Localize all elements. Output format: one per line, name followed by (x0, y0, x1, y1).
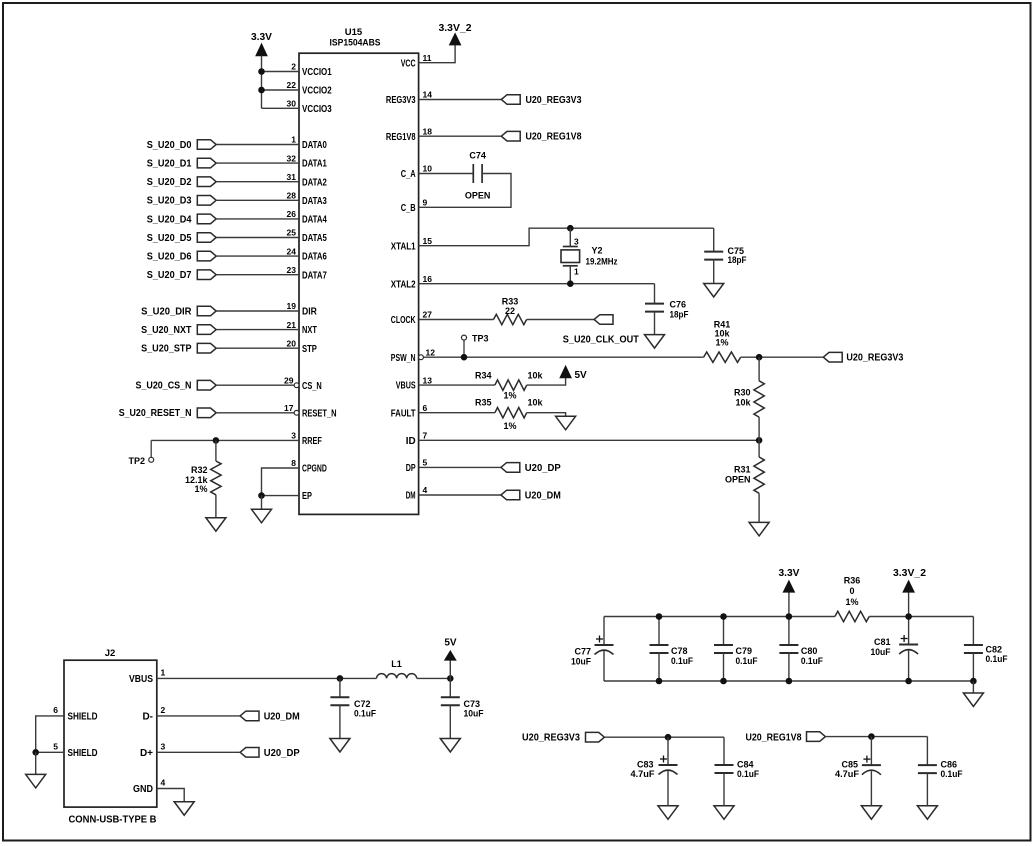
wire DP pin 5 to flag (419, 466, 501, 468)
svg-text:32: 32 (287, 153, 297, 163)
svg-text:C_B: C_B (401, 203, 416, 214)
svg-text:12: 12 (426, 347, 436, 357)
svg-text:STP: STP (302, 344, 317, 355)
svg-text:C76: C76 (670, 300, 687, 310)
resistor R33 22 (494, 297, 527, 325)
svg-text:4.7uF: 4.7uF (835, 769, 860, 779)
svg-text:R33: R33 (502, 297, 519, 307)
svg-text:26: 26 (287, 209, 297, 219)
junction C73 5V (447, 675, 454, 682)
svg-text:DATA1: DATA1 (302, 159, 327, 170)
svg-text:19: 19 (287, 301, 297, 311)
wire bottom bus to ground (972, 681, 974, 693)
resistor R41 10k 1% (704, 320, 741, 363)
wire SHIELD to ground (35, 752, 37, 774)
wire SHIELD pin 5 (36, 751, 64, 753)
svg-text:0: 0 (849, 586, 854, 596)
svg-text:3.3V_2: 3.3V_2 (893, 568, 926, 579)
node S_U20_NXT flag (141, 325, 216, 336)
wire REG3V3 bank (604, 736, 724, 738)
svg-text:20: 20 (287, 338, 297, 348)
wire EP to ground (261, 496, 263, 510)
svg-text:7: 7 (423, 431, 428, 441)
capacitor C76 18pF (645, 284, 689, 335)
capacitor C83 4.7uF (631, 737, 678, 806)
power 3.3V (bank) (779, 568, 800, 617)
wire RREF pin 3 (151, 439, 299, 441)
wire ground bottom bus (604, 680, 973, 682)
svg-text:5V: 5V (575, 370, 588, 381)
svg-text:C_A: C_A (401, 169, 416, 180)
svg-text:10k: 10k (528, 371, 544, 381)
junction ID node (756, 437, 763, 444)
wire S_U20_D1 to IC (216, 162, 299, 164)
svg-text:D+: D+ (140, 748, 153, 759)
svg-text:DP: DP (406, 463, 416, 474)
svg-text:1%: 1% (503, 390, 516, 400)
svg-text:U20_REG1V8: U20_REG1V8 (746, 733, 802, 744)
svg-text:C83: C83 (637, 759, 654, 769)
svg-text:REG3V3: REG3V3 (386, 95, 416, 106)
junction crystal bottom (567, 280, 574, 287)
svg-text:22: 22 (505, 306, 515, 316)
svg-text:1: 1 (291, 135, 296, 145)
ground below R35 (556, 416, 576, 430)
power 5V (VBUS pullup) (560, 366, 587, 381)
node U20_REG3V3 flag (bank) (522, 732, 604, 743)
svg-text:S_U20_D6: S_U20_D6 (147, 252, 192, 263)
svg-text:D-: D- (142, 712, 153, 723)
svg-text:OPEN: OPEN (465, 191, 491, 201)
svg-text:17: 17 (284, 403, 294, 413)
wire S_U20_D2 to IC (216, 181, 299, 183)
svg-text:0.1uF: 0.1uF (354, 709, 376, 719)
svg-text:C77: C77 (574, 647, 591, 657)
junction SHIELD (32, 749, 39, 756)
svg-text:VBUS: VBUS (396, 381, 416, 392)
resistor R36 0 1% (835, 576, 869, 622)
wire S_U20_D5 to IC (216, 237, 299, 239)
capacitor C77 10uF (571, 617, 614, 682)
svg-text:5V: 5V (444, 638, 457, 649)
svg-text:3: 3 (574, 236, 579, 246)
svg-text:21: 21 (287, 320, 297, 330)
svg-text:DATA0: DATA0 (302, 140, 327, 151)
junction C80 bottom (786, 678, 793, 685)
ground below C84 (714, 806, 734, 820)
ground below EP (252, 509, 272, 523)
node S_U20_D4 flag (147, 214, 217, 225)
pin bubble RESET_N pin 17 (294, 410, 299, 415)
svg-text:VCCIO3: VCCIO3 (302, 104, 332, 115)
node U20_REG1V8 flag (top) (501, 131, 582, 142)
wire R41 to REG3V3 flag (741, 356, 824, 358)
svg-text:4: 4 (423, 485, 428, 495)
svg-text:J2: J2 (105, 648, 116, 659)
svg-text:11: 11 (423, 53, 432, 63)
svg-text:S_U20_D2: S_U20_D2 (147, 177, 192, 188)
test point TP3 (462, 333, 489, 357)
svg-text:S_U20_STP: S_U20_STP (141, 344, 192, 355)
svg-text:ID: ID (406, 436, 416, 447)
svg-text:TP3: TP3 (472, 333, 489, 343)
svg-text:DATA4: DATA4 (302, 215, 327, 226)
ground below C75 (704, 284, 724, 298)
wire VCCIO2 (262, 89, 300, 91)
junction TP3 on PSW_N wire (461, 354, 468, 361)
node U20_REG3V3 flag (top) (501, 95, 582, 106)
wire S_U20_D4 to IC (216, 218, 299, 220)
ground below J2 GND (174, 802, 194, 816)
node S_U20_D0 flag (147, 140, 217, 151)
capacitor C86 0.1uF (918, 737, 963, 806)
wire S_U20_DIR to IC (216, 310, 299, 312)
svg-text:CPGND: CPGND (302, 464, 327, 475)
capacitor C73 10uF (441, 678, 484, 738)
wire VCCIO3 (262, 107, 300, 109)
resistor R35 10k 1% (475, 397, 544, 431)
wire R35 to ground (527, 413, 566, 417)
ground below C86 (917, 806, 937, 820)
node S_U20_STP flag (141, 343, 216, 354)
svg-text:0.1uF: 0.1uF (941, 769, 963, 779)
svg-text:10: 10 (423, 164, 433, 174)
svg-text:1%: 1% (715, 338, 728, 348)
junction RREF R32 (213, 437, 220, 444)
svg-text:S_U20_D4: S_U20_D4 (147, 214, 192, 225)
svg-text:R36: R36 (844, 576, 861, 586)
inductor L1 (377, 659, 417, 678)
capacitor C74 (465, 150, 491, 200)
test point TP2 (128, 440, 153, 466)
svg-text:S_U20_DIR: S_U20_DIR (141, 306, 192, 317)
svg-text:FAULT: FAULT (391, 408, 416, 419)
svg-text:C81: C81 (874, 637, 891, 647)
wire S_U20_D3 to IC (216, 199, 299, 201)
svg-text:0.1uF: 0.1uF (671, 656, 693, 666)
capacitor C85 4.7uF (835, 737, 881, 806)
svg-text:CS_N: CS_N (302, 381, 322, 392)
svg-text:18pF: 18pF (728, 255, 747, 265)
ground below bank (963, 693, 983, 707)
svg-text:S_U20_CLK_OUT: S_U20_CLK_OUT (563, 334, 639, 345)
svg-text:0.1uF: 0.1uF (737, 769, 759, 779)
svg-text:3.3V: 3.3V (251, 32, 272, 43)
wire R34 to 5V (527, 378, 566, 386)
node S_U20_D7 flag (147, 270, 217, 281)
svg-text:U20_DP: U20_DP (525, 463, 561, 474)
node S_U20_CLK_OUT flag (563, 315, 639, 346)
wire REG1V8 pin 18 (419, 135, 502, 137)
svg-text:14: 14 (423, 90, 433, 100)
svg-text:Y2: Y2 (592, 246, 603, 256)
svg-text:U20_DM: U20_DM (264, 711, 300, 722)
svg-text:DATA5: DATA5 (302, 233, 327, 244)
svg-text:25: 25 (287, 228, 297, 238)
wire S_U20_RESET_N to IC (216, 412, 294, 414)
svg-text:OPEN: OPEN (725, 475, 751, 485)
node U20_DP flag (IC) (501, 463, 561, 474)
capacitor C81 10uF (871, 617, 919, 682)
node S_U20_D6 flag (147, 251, 217, 262)
svg-text:S_U20_D3: S_U20_D3 (147, 196, 192, 207)
svg-text:C78: C78 (671, 646, 688, 656)
svg-text:U20_REG3V3: U20_REG3V3 (526, 95, 582, 106)
svg-text:XTAL2: XTAL2 (391, 279, 416, 290)
svg-text:ISP1504ABS: ISP1504ABS (330, 38, 381, 49)
resistor R30 10k (734, 357, 764, 440)
svg-text:16: 16 (423, 274, 433, 284)
wire XTAL1 pin 15 to crystal and C75 (419, 228, 714, 246)
node S_U20_D5 flag (147, 233, 217, 244)
svg-text:C82: C82 (986, 644, 1003, 654)
svg-text:18: 18 (423, 126, 433, 136)
wire L1 to C73 5V (417, 677, 451, 679)
svg-text:C79: C79 (736, 646, 753, 656)
wire ID pin 7 to R30 R31 node (419, 439, 759, 441)
svg-text:DIR: DIR (302, 307, 318, 318)
wire D- pin 2 to U20_DM flag (157, 715, 240, 717)
svg-text:0.1uF: 0.1uF (986, 654, 1008, 664)
svg-text:10k: 10k (528, 398, 544, 408)
node S_U20_DIR flag (141, 306, 216, 317)
svg-text:15: 15 (423, 236, 433, 246)
svg-text:TP2: TP2 (128, 456, 145, 466)
svg-text:U20_REG3V3: U20_REG3V3 (522, 733, 580, 744)
ground below SHIELD (26, 774, 46, 788)
svg-text:S_U20_CS_N: S_U20_CS_N (136, 381, 192, 392)
capacitor C72 0.1uF (330, 678, 376, 738)
wire VCC pin 11 (419, 45, 456, 63)
svg-text:4: 4 (161, 778, 166, 788)
svg-text:S_U20_RESET_N: S_U20_RESET_N (119, 408, 192, 419)
svg-text:24: 24 (287, 246, 297, 256)
capacitor C84 0.1uF (715, 737, 760, 806)
wire S_U20_CS_N to IC (216, 384, 294, 386)
ground below C76 (645, 335, 665, 349)
resistor R31 OPEN (725, 440, 764, 522)
wire S_U20_D7 to IC (216, 274, 299, 276)
svg-text:10uF: 10uF (571, 656, 591, 666)
svg-text:DATA6: DATA6 (302, 252, 327, 263)
svg-text:S_U20_D0: S_U20_D0 (147, 140, 192, 151)
svg-text:19.2MHz: 19.2MHz (586, 257, 618, 267)
svg-text:C85: C85 (841, 759, 858, 769)
wire PSW_N pin 12 to R41 (423, 356, 703, 358)
wire S_U20_D0 to IC (216, 144, 299, 146)
svg-text:1: 1 (574, 266, 579, 276)
svg-text:VCCIO2: VCCIO2 (302, 86, 332, 97)
svg-text:L1: L1 (391, 659, 402, 669)
ground below R31 (749, 522, 769, 536)
svg-text:SHIELD: SHIELD (68, 748, 98, 759)
svg-text:C80: C80 (801, 646, 818, 656)
node S_U20_D1 flag (147, 158, 217, 169)
wire 3.3V_2 top bus (869, 616, 973, 618)
svg-text:13: 13 (423, 375, 433, 385)
svg-text:VCC: VCC (401, 58, 416, 69)
wire REG1V8 bank (825, 736, 927, 738)
resistor R34 10k 1% (475, 371, 544, 401)
svg-text:1%: 1% (194, 484, 207, 494)
svg-text:6: 6 (423, 403, 428, 413)
wire GND pin 4 (157, 789, 184, 802)
svg-text:XTAL1: XTAL1 (391, 241, 416, 252)
junction crystal top (567, 225, 574, 232)
pin bubble CS_N pin 29 (294, 383, 299, 388)
svg-text:S_U20_NXT: S_U20_NXT (141, 325, 191, 336)
junction C81 bottom (905, 678, 912, 685)
node U20_DM flag (J2) (240, 711, 300, 722)
wire C74 to C_B pin 9 loop (419, 174, 511, 208)
capacitor C75 18pF (704, 228, 747, 283)
capacitor C82 0.1uF (964, 617, 1008, 682)
ground below C72 (330, 739, 350, 753)
wire C_A pin 10 to C74 (419, 173, 474, 175)
node U20_REG1V8 flag (bank) (746, 732, 826, 744)
svg-text:VBUS: VBUS (129, 674, 153, 685)
wire R33 to clock out flag (527, 319, 595, 321)
capacitor C79 0.1uF (714, 617, 758, 682)
svg-text:22: 22 (287, 80, 297, 90)
svg-text:R32: R32 (191, 465, 208, 475)
junction C79 top (720, 613, 727, 620)
wire C73 riser to 5V (449, 660, 451, 678)
svg-text:29: 29 (284, 375, 294, 385)
connector J2 CONN-USB-TYPE B (53, 648, 165, 826)
wire VBUS pin 13 to R34 (419, 384, 495, 386)
svg-text:VCCIO1: VCCIO1 (302, 67, 332, 78)
IC U15 ISP1504ABS (284, 27, 435, 514)
svg-text:1%: 1% (503, 421, 516, 431)
ground below R32 (206, 518, 226, 532)
svg-text:31: 31 (287, 172, 297, 182)
wire S_U20_NXT to IC (216, 329, 299, 331)
svg-text:10uF: 10uF (871, 647, 891, 657)
wire DM pin 4 to flag (419, 494, 501, 496)
svg-text:6: 6 (53, 705, 58, 715)
svg-text:0.1uF: 0.1uF (801, 656, 823, 666)
svg-text:1: 1 (161, 668, 166, 678)
svg-text:RESET_N: RESET_N (302, 408, 337, 419)
svg-text:3: 3 (161, 741, 166, 751)
svg-text:10uF: 10uF (464, 709, 484, 719)
wire CLOCK pin 27 to R33 (419, 319, 494, 321)
svg-text:30: 30 (287, 99, 297, 109)
junction VCCIO1 (258, 68, 265, 75)
junction CPGND EP (258, 492, 265, 499)
svg-text:0.1uF: 0.1uF (736, 656, 758, 666)
junction C82 bottom (970, 678, 977, 685)
node S_U20_RESET_N flag (119, 408, 216, 419)
pin bubble PSW_N pin 12 (419, 355, 424, 360)
ground below C73 (440, 739, 460, 753)
wire 3.3V rail vertical (261, 56, 263, 109)
svg-text:C74: C74 (469, 150, 486, 160)
wire S_U20_STP to IC (216, 347, 299, 349)
svg-text:1%: 1% (845, 597, 858, 607)
node U20_REG3V3 flag (right) (823, 352, 903, 363)
svg-text:3.3V: 3.3V (779, 568, 800, 579)
svg-text:CLOCK: CLOCK (391, 315, 416, 326)
wire FAULT pin 6 to R35 (419, 412, 495, 414)
capacitor C80 0.1uF (779, 617, 823, 682)
power 5V (after L1) (444, 638, 457, 660)
svg-text:DATA3: DATA3 (302, 196, 327, 207)
svg-text:9: 9 (423, 198, 428, 208)
svg-text:R34: R34 (475, 371, 492, 381)
svg-text:28: 28 (287, 191, 297, 201)
power 3.3V_2 (VCC) (439, 23, 472, 45)
junction C78 bottom (656, 678, 663, 685)
junction C78 top (656, 613, 663, 620)
junction C83 (665, 734, 672, 741)
svg-text:DATA7: DATA7 (302, 270, 327, 281)
svg-text:2: 2 (291, 62, 296, 72)
svg-text:C84: C84 (737, 759, 754, 769)
svg-text:R35: R35 (475, 397, 492, 407)
junction C80 top (786, 613, 793, 620)
svg-text:GND: GND (133, 784, 153, 795)
node S_U20_D3 flag (147, 196, 217, 207)
wire VBUS pin 1 to C72 L1 C73 (157, 677, 377, 679)
svg-text:U15: U15 (345, 27, 363, 38)
wire S_U20_D6 to IC (216, 255, 299, 257)
ground below C85 (861, 806, 881, 820)
node U20_DM flag (IC) (501, 490, 561, 501)
svg-text:3.3V_2: 3.3V_2 (439, 23, 472, 34)
wire XTAL2 pin 16 to C76 (419, 283, 655, 285)
svg-text:S_U20_D1: S_U20_D1 (147, 159, 192, 170)
svg-text:U20_REG3V3: U20_REG3V3 (846, 353, 903, 364)
svg-text:C86: C86 (941, 759, 958, 769)
svg-text:EP: EP (302, 491, 312, 502)
svg-text:5: 5 (53, 741, 58, 751)
node U20_DP flag (J2) (240, 748, 300, 759)
svg-text:R31: R31 (734, 464, 751, 474)
svg-text:R30: R30 (734, 388, 751, 398)
ground below C83 (658, 806, 678, 820)
svg-text:23: 23 (287, 265, 297, 275)
junction C85 (868, 733, 875, 740)
svg-text:4.7uF: 4.7uF (631, 769, 656, 779)
svg-text:27: 27 (423, 310, 433, 320)
junction C81 top (905, 613, 912, 620)
svg-text:10k: 10k (735, 397, 751, 407)
power 3.3V (VCCIO rail) (251, 32, 272, 56)
svg-text:DATA2: DATA2 (302, 177, 327, 188)
wire 3.3V top bus (604, 616, 835, 618)
capacitor C78 0.1uF (650, 617, 694, 682)
svg-text:REG1V8: REG1V8 (386, 132, 416, 143)
wire SHIELD pin 6 (36, 716, 64, 752)
svg-text:PSW_N: PSW_N (391, 353, 416, 364)
svg-text:2: 2 (161, 705, 166, 715)
wire REG3V3 pin 14 (419, 99, 502, 101)
svg-text:S_U20_D5: S_U20_D5 (147, 233, 192, 244)
junction C79 bottom (720, 678, 727, 685)
resistor R32 12.1k 1% (185, 440, 221, 517)
svg-text:8: 8 (291, 458, 296, 468)
svg-text:SHIELD: SHIELD (68, 712, 98, 723)
node S_U20_D2 flag (147, 177, 217, 188)
wire VCCIO1 (262, 71, 300, 73)
svg-text:S_U20_D7: S_U20_D7 (147, 270, 192, 281)
svg-text:3: 3 (291, 431, 296, 441)
svg-text:RREF: RREF (302, 436, 322, 447)
svg-text:U20_REG1V8: U20_REG1V8 (526, 132, 582, 143)
wire EP pin (262, 495, 300, 497)
